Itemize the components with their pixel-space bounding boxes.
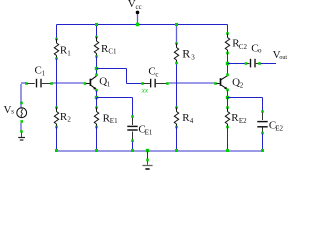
- svg-text:E1: E1: [110, 117, 118, 125]
- node Q1 emitter junction: [95, 96, 98, 99]
- resistor RE1: [96, 98, 98, 108]
- svg-text:s: s: [11, 108, 14, 116]
- wire CE2 to rail: [262, 134, 264, 151]
- wire R1 top lead: [56, 25, 58, 40]
- node R3 rail junction: [175, 23, 178, 26]
- node RE2 rail: [226, 149, 229, 152]
- svg-text:V: V: [128, 0, 136, 10]
- wire R4 to rail: [176, 127, 178, 151]
- svg-text:1: 1: [42, 69, 46, 77]
- capacitor Cc: [141, 82, 144, 85]
- wire R3 bottom to base row: [176, 62, 178, 84]
- wire ground stub: [147, 151, 149, 160]
- svg-text:out: out: [279, 55, 287, 61]
- resistor R2: [55, 106, 58, 109]
- power Vcc dot: [136, 11, 140, 15]
- node RE1 rail: [95, 149, 98, 152]
- resistor RC1: [95, 36, 98, 39]
- wire bottom rail: [57, 150, 262, 152]
- svg-text:o: o: [258, 47, 262, 55]
- wire CE1 to rail: [132, 142, 134, 151]
- node R4 rail: [175, 149, 178, 152]
- wire RC2 top lead: [227, 25, 229, 34]
- node Q2 emitter junction: [226, 96, 229, 99]
- svg-text:1: 1: [107, 81, 111, 89]
- svg-text:cc: cc: [136, 3, 142, 11]
- wire collector node right: [97, 68, 127, 70]
- resistor R1: [55, 38, 58, 41]
- wire Q1 emitter down: [96, 91, 98, 98]
- svg-text:E2: E2: [275, 124, 283, 132]
- svg-text:1: 1: [67, 49, 71, 57]
- source Vs: [20, 102, 23, 105]
- node RC1 rail junction: [95, 23, 98, 26]
- wire R1 bottom to R2 top: [56, 59, 58, 108]
- wire C1 to base node: [53, 82, 86, 84]
- wire CE1 drop: [132, 98, 134, 117]
- wire Cc to Q2 base: [169, 82, 216, 84]
- svg-text:E1: E1: [145, 128, 153, 136]
- wire Vs to C1 corner: [21, 82, 26, 84]
- wire emitter row to CE1: [97, 97, 133, 99]
- node Q2 collector junction: [226, 62, 229, 65]
- transistor Q1: [84, 82, 87, 85]
- node Vcc rail junction: [136, 23, 139, 26]
- node Q1 collector junction: [95, 67, 98, 70]
- wire Vcc stub: [137, 14, 139, 25]
- wire jog to Cc: [127, 83, 143, 85]
- capacitor CE1: [131, 115, 134, 118]
- svg-text:2: 2: [240, 82, 244, 90]
- resistor RC2: [226, 32, 229, 35]
- svg-text:E2: E2: [239, 117, 247, 125]
- capacitor C1: [25, 82, 28, 85]
- transistor Q2: [214, 82, 217, 85]
- capacitor Co: [245, 62, 248, 65]
- svg-text:2: 2: [67, 116, 71, 124]
- svg-text:C1: C1: [108, 47, 117, 55]
- svg-text:C2: C2: [239, 43, 248, 51]
- wire R4 top: [176, 84, 178, 108]
- wire R2 to bottom rail: [56, 127, 58, 151]
- wire emitter row to CE2: [228, 97, 263, 99]
- node ground rail junction: [146, 149, 149, 152]
- capacitor CE2: [261, 110, 264, 113]
- svg-text:3: 3: [191, 54, 195, 62]
- wire RC1 top stub: [96, 25, 98, 38]
- wire Vs to ground: [20, 123, 22, 131]
- resistor RE2: [227, 98, 229, 108]
- wire RE1 to rail: [96, 127, 98, 151]
- wire R3 top stub: [176, 24, 178, 44]
- wire Q2 emitter down: [227, 90, 229, 97]
- svg-text:4: 4: [190, 117, 194, 125]
- svg-text:c: c: [155, 70, 158, 78]
- wire RC1 to Q1 collector: [96, 57, 98, 74]
- resistor R3: [175, 42, 178, 45]
- wire RC2 to Q2 collector: [227, 53, 229, 74]
- wire Co to Vout: [261, 63, 277, 65]
- svg-text:R: R: [182, 47, 190, 61]
- node CE1 rail: [131, 149, 134, 152]
- wire top rail: [57, 24, 228, 26]
- wire RE2 to rail: [227, 127, 229, 151]
- resistor R4: [175, 106, 178, 109]
- ground center: [146, 159, 149, 162]
- node CE2 rail: [261, 149, 264, 152]
- wire collector node to Co: [228, 63, 247, 65]
- node R2 rail: [55, 149, 58, 152]
- svg-text:xx: xx: [141, 87, 149, 95]
- ground Vs: [20, 130, 23, 133]
- wire CE2 drop: [262, 98, 264, 112]
- wire coupling jog down: [126, 69, 128, 84]
